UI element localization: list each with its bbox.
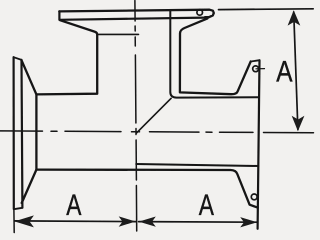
svg-text:A: A — [199, 189, 214, 222]
svg-text:A: A — [66, 189, 81, 222]
svg-text:A: A — [276, 55, 293, 88]
